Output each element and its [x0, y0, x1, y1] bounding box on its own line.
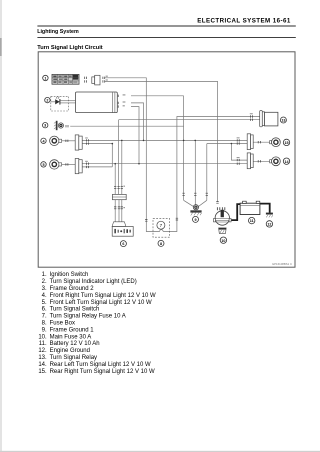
wire LED to meter block lower	[60, 102, 75, 104]
label 5	[41, 162, 46, 167]
wire meter right-turn feed	[131, 103, 144, 140]
junction meter feed / row C	[138, 163, 140, 165]
svg-text:Fuse Box: Fuse Box	[50, 321, 75, 327]
wire relay row 2 to switch drop	[119, 119, 260, 121]
pin marks front left connector output	[87, 163, 89, 169]
header rule 1	[37, 26, 295, 27]
svg-text:Frame Ground 2: Frame Ground 2	[50, 286, 95, 292]
wire fuse element bump	[160, 230, 164, 232]
label 6	[120, 241, 126, 247]
pin marks rear ground wire	[206, 193, 208, 196]
ignition switch connector	[92, 75, 100, 85]
label 8	[158, 240, 164, 246]
rear right bulb L15	[270, 138, 281, 147]
label 11	[249, 217, 255, 223]
wire meter ground pin to ground bus	[131, 95, 184, 97]
wire front left bulb lead	[62, 163, 76, 165]
pin marks ground link wire	[194, 193, 196, 196]
wire rear-left ground branch	[231, 144, 247, 161]
front right connector	[75, 135, 82, 150]
svg-text:11: 11	[250, 219, 254, 223]
pin marks rear right connector input	[237, 139, 239, 145]
svg-text:GP16108BS1 C: GP16108BS1 C	[272, 262, 292, 266]
battery thick lead to engine ground	[260, 204, 270, 213]
wire LED to meter block upper	[60, 100, 75, 102]
pin marks front bulb leads	[66, 140, 68, 166]
pin marks turn signal relay input	[250, 115, 252, 121]
pin marks meter unit pins	[117, 95, 119, 108]
wire front ground drop	[111, 144, 113, 167]
fuse F7 circle label inside box	[157, 221, 165, 229]
svg-text:6: 6	[122, 242, 124, 246]
wire bundle below connector 3	[121, 200, 123, 222]
label 13	[280, 117, 286, 123]
wire rear left bulb stub	[253, 160, 270, 162]
svg-text:2: 2	[46, 99, 48, 103]
junction switch output / row A	[121, 140, 123, 142]
junction switch output / row C	[114, 163, 116, 165]
wire ignition brown: right then down to fuse box	[105, 78, 160, 232]
svg-text:8: 8	[160, 242, 162, 246]
junction ground bus / row A	[183, 140, 185, 142]
svg-text:1: 1	[44, 77, 46, 81]
bottom scan edge line	[0, 451, 320, 452]
pin marks vertical wires	[114, 186, 219, 221]
header rule 2	[37, 36, 295, 39]
wire switch output right vertical	[121, 140, 123, 194]
svg-text:3.: 3.	[42, 286, 47, 292]
wire bundle below connector 1	[114, 200, 116, 222]
svg-text:Main Fuse 30 A: Main Fuse 30 A	[50, 334, 92, 340]
front right bulb L4	[50, 136, 62, 145]
pin marks rear bulb leads	[258, 141, 260, 163]
junction front ground drop	[112, 143, 114, 145]
svg-text:Frame Ground 1: Frame Ground 1	[50, 327, 95, 333]
svg-text:Turn Signal Light Circuit: Turn Signal Light Circuit	[37, 45, 103, 51]
wire frame ground 2 row	[70, 125, 183, 127]
svg-text:Turn Signal Indicator Light (L: Turn Signal Indicator Light (LED)	[50, 279, 137, 285]
label 14	[283, 158, 289, 164]
svg-text:4.: 4.	[42, 293, 47, 299]
circled part numbers	[41, 75, 290, 246]
svg-text:9: 9	[194, 218, 196, 222]
pin marks frame ground 2 lead	[66, 125, 68, 127]
svg-text:13.: 13.	[38, 355, 47, 361]
frame ground 1 bolt	[190, 205, 201, 216]
junction rear ground branch	[231, 143, 233, 145]
svg-text:Rear Right Turn Signal Light 1: Rear Right Turn Signal Light 12 V 10 W	[50, 369, 155, 375]
pin marks harness connector top	[114, 186, 123, 188]
svg-text:Ignition Switch: Ignition Switch	[50, 272, 89, 278]
svg-text:14.: 14.	[38, 362, 47, 368]
front left bulb L5	[50, 160, 62, 169]
wire ground link vertical	[194, 140, 196, 204]
svg-text:7.: 7.	[42, 314, 47, 320]
svg-text:6.: 6.	[42, 307, 47, 313]
turn signal relay connector	[260, 111, 265, 127]
label 12	[266, 221, 272, 227]
frame ground 2 symbol	[54, 121, 64, 130]
pin marks front right connector output	[87, 139, 89, 145]
engine ground symbol	[266, 213, 273, 218]
svg-text:10: 10	[221, 239, 225, 243]
svg-text:Lighting System: Lighting System	[37, 29, 78, 35]
svg-text:3: 3	[44, 124, 46, 128]
svg-text:Front Right Turn Signal Light: Front Right Turn Signal Light 12 V 10 W	[50, 293, 156, 299]
svg-text:9.: 9.	[42, 327, 47, 333]
svg-text:15: 15	[284, 141, 288, 145]
wire front right bulb lead	[62, 140, 76, 142]
label 3	[43, 123, 48, 128]
pin marks fuse box input	[145, 219, 147, 221]
svg-text:5: 5	[42, 163, 44, 167]
svg-text:Front Left Turn Signal Light 1: Front Left Turn Signal Light 12 V 10 W	[50, 300, 152, 306]
pin marks main fuse input	[216, 202, 218, 204]
svg-text:11.: 11.	[39, 341, 47, 347]
wire switch output left vertical	[114, 164, 116, 195]
wire row B front ground left segment	[82, 143, 112, 145]
wire row C left-turn signal	[82, 163, 247, 165]
svg-text:12: 12	[267, 223, 271, 227]
label 15	[283, 139, 289, 145]
wire rear ground to frame ground 1	[206, 144, 208, 201]
wire LED left lead	[51, 101, 55, 103]
rear right connector	[247, 134, 253, 150]
svg-text:Turn Signal Relay Fuse 10 A: Turn Signal Relay Fuse 10 A	[50, 314, 126, 320]
rear left bulb L14	[270, 157, 281, 166]
left scan edge band	[0, 0, 2, 452]
pin marks horizontal wires	[66, 77, 261, 169]
svg-text:1.: 1.	[42, 272, 47, 278]
junction meter feed / row A	[143, 140, 145, 142]
battery B11	[240, 201, 260, 214]
wire rear ground diagonal into bolt	[198, 200, 207, 206]
svg-text:ELECTRICAL SYSTEM 16-61: ELECTRICAL SYSTEM 16-61	[197, 18, 291, 25]
label 1	[43, 75, 48, 80]
junction ground link / row A	[194, 140, 196, 142]
svg-text:Engine Ground: Engine Ground	[50, 348, 90, 354]
svg-text:2.: 2.	[42, 279, 47, 285]
parts list	[38, 272, 156, 375]
svg-text:13: 13	[281, 119, 285, 123]
wire ground bus diagonal into bolt	[184, 200, 194, 206]
pin marks ignition switch leads	[85, 77, 87, 83]
turn signal switch SW6	[112, 227, 133, 237]
turn signal indicator dashed box	[51, 96, 69, 111]
svg-text:12.: 12.	[38, 348, 47, 354]
wire relay feed vertical to connector bundle	[118, 120, 120, 195]
label 9	[193, 216, 199, 222]
svg-text:15.: 15.	[38, 369, 47, 375]
wire row A right-turn signal	[82, 139, 247, 141]
svg-text:8.: 8.	[42, 321, 47, 327]
svg-text:7: 7	[160, 223, 163, 228]
pin marks fuse box output	[176, 218, 178, 220]
turn signal relay R13	[265, 112, 278, 126]
svg-text:Battery 12 V 10 Ah: Battery 12 V 10 Ah	[50, 341, 100, 347]
wire front-left ground stub	[82, 166, 112, 168]
label 10	[220, 237, 226, 243]
diagram frame	[38, 52, 295, 267]
svg-text:10.: 10.	[38, 334, 47, 340]
front left connector	[75, 159, 82, 174]
pin marks harness connector bottom	[114, 207, 123, 209]
svg-text:Rear Left Turn Signal Light 12: Rear Left Turn Signal Light 12 V 10 W	[50, 362, 151, 368]
battery thick lead to main fuse	[231, 204, 240, 220]
wire ground bus vertical	[183, 96, 185, 201]
joint connector in harness	[112, 194, 126, 199]
wire rear ground row	[207, 143, 247, 145]
label 4	[41, 138, 46, 143]
wire ignition white: right then down to main fuse	[105, 81, 218, 201]
meter unit block	[76, 92, 118, 113]
svg-text:Turn Signal Switch: Turn Signal Switch	[50, 307, 100, 313]
pin marks rear left connector input	[237, 159, 239, 165]
wire meter left-turn feed	[131, 107, 139, 164]
svg-text:Turn Signal Relay: Turn Signal Relay	[50, 355, 97, 361]
LED D1	[55, 96, 60, 104]
pin marks ground bus wire	[182, 193, 184, 196]
fuse box dashed	[153, 219, 170, 238]
switch boot connector	[112, 222, 126, 227]
main fuse / starter relay assembly	[214, 207, 232, 233]
wire fuse output up to turn signal relay row 1	[163, 117, 260, 232]
rear left connector	[247, 153, 253, 169]
wire colour label specks	[85, 76, 253, 209]
label 2	[45, 97, 50, 102]
wire bundle below connector 2	[118, 200, 120, 222]
svg-text:5.: 5.	[42, 300, 47, 306]
pin marks ignition connector output	[103, 77, 105, 83]
ignition switch U1 table	[52, 74, 79, 84]
wire rear right bulb stub	[253, 141, 270, 143]
